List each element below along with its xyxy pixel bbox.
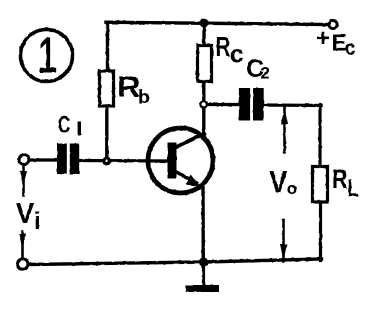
svg-text:b: b [138,87,150,109]
label Vo with arrows [283,107,286,152]
svg-text:V: V [16,198,35,230]
figure number circle 1 [21,30,73,82]
svg-text:V: V [269,163,287,199]
wire: bottom rail [28,259,322,265]
resistor Rb [100,71,114,106]
node: collector junction [199,100,208,109]
wire: Rb down to base node [105,106,108,162]
wire: top rail down to Rc [202,23,205,46]
wire: C2 to right corner [264,103,322,107]
svg-text:2: 2 [261,64,270,83]
svg-text:c: c [230,41,244,69]
resistor Rc [198,46,212,82]
wire: input terminal to C1 [29,158,58,161]
wire: output from collector node to C2 [204,103,239,106]
svg-text:L: L [348,175,359,202]
resistor RL [313,167,328,203]
node: base junction [102,157,111,166]
terminal: +Ec [329,20,337,28]
terminal: input bottom [18,259,28,269]
transistor Q1 [148,128,213,193]
wire: C1 to transistor base [79,159,170,163]
label Vi with arrows [22,165,25,196]
svg-text:+: + [316,25,330,52]
node: top rail junction [200,19,209,28]
terminal: input top [19,155,29,165]
capacitor C1 plates [57,144,67,175]
svg-text:i: i [34,208,41,235]
wire: top-left vertical from top rail to Rb [106,23,109,72]
ground [202,262,205,285]
svg-text:R: R [332,164,348,194]
svg-text:R: R [216,31,231,62]
svg-text:c: c [345,38,356,60]
svg-text:C: C [58,111,71,138]
wire: emitter down to bottom rail [201,188,205,263]
node: bottom junction [199,257,208,266]
wire: RL down to bottom rail [319,202,322,261]
wire: right vertical down to RL [318,105,321,168]
wire: top rail horizontal to +Ec terminal [106,22,330,24]
svg-text:1: 1 [38,29,58,83]
svg-text:o: o [287,179,297,198]
capacitor C2 plates [239,88,250,121]
wire: Rc down to collector [202,82,205,135]
